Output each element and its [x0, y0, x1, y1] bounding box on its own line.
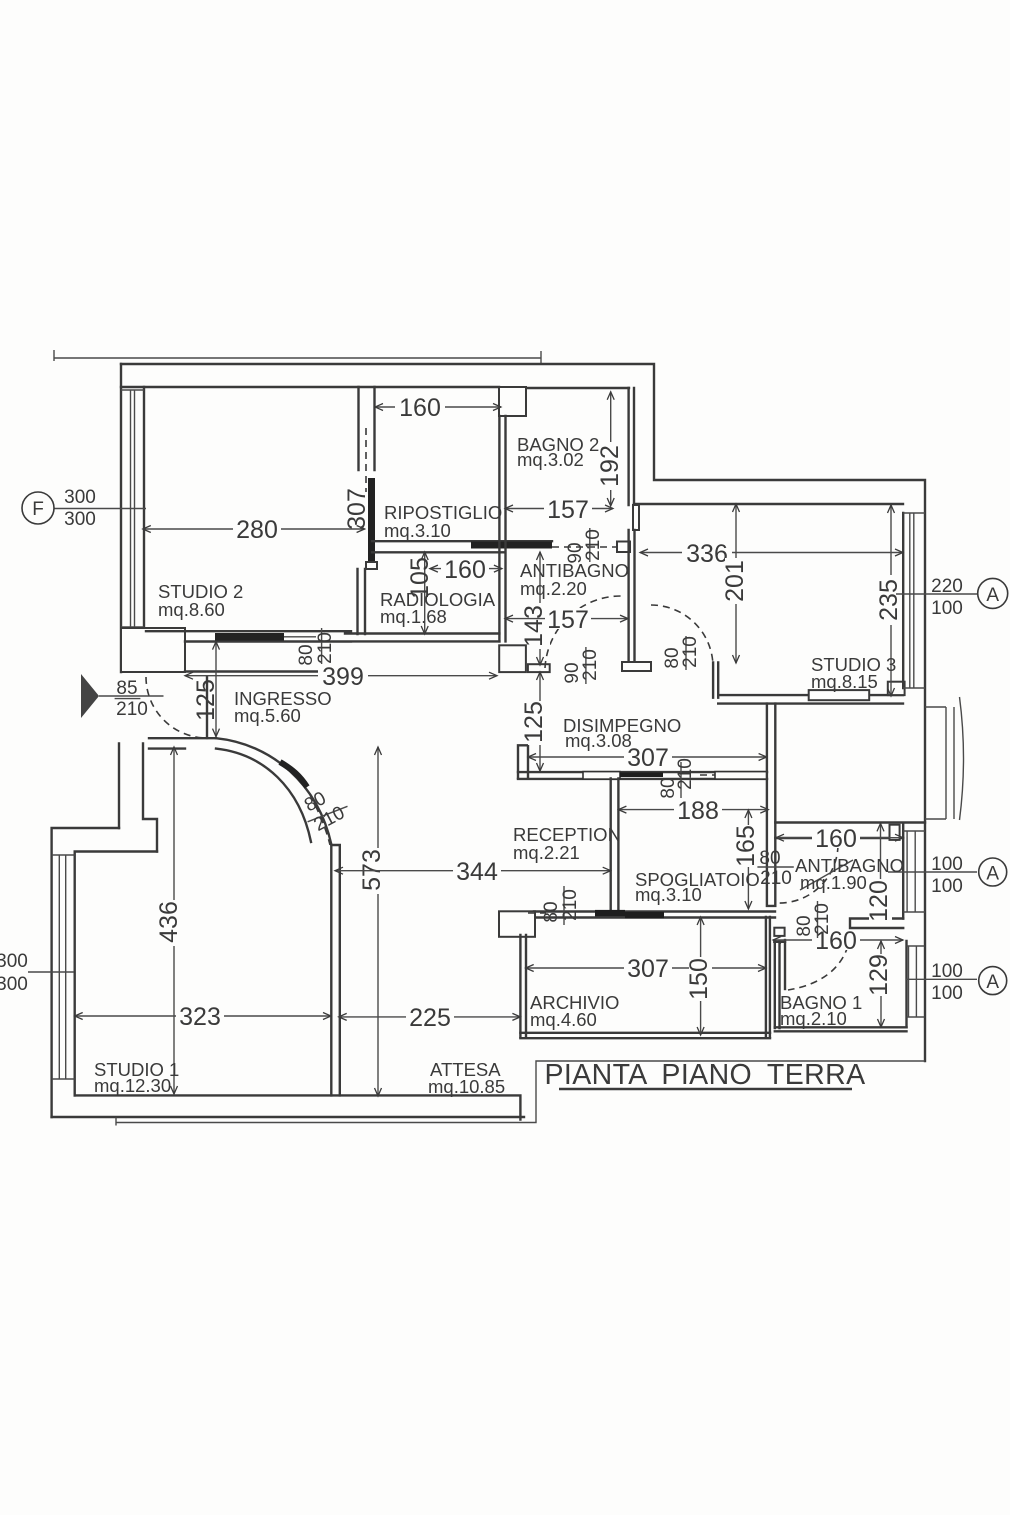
- dimension 120 ANTIBAGNO east: [865, 823, 893, 921]
- svg-text:235: 235: [875, 579, 903, 621]
- svg-text:mq.3.08: mq.3.08: [565, 730, 632, 751]
- svg-text:A: A: [986, 864, 999, 885]
- dimension 150 ARCHIVIO east: [685, 917, 713, 1035]
- jamb block BAGNO 1 door: [774, 928, 785, 942]
- pier between RIPOSTIGLIO and BAGNO 2: [499, 387, 526, 416]
- room label RECEPTION: [513, 824, 621, 863]
- svg-text:125: 125: [192, 679, 220, 721]
- dimension 165 SPOGLIATOIO east: [732, 810, 760, 909]
- dimension 201 corridor: [721, 504, 749, 663]
- wall BAGNO 2 east: [622, 388, 651, 671]
- svg-text:210: 210: [583, 529, 604, 561]
- svg-text:mq.1.90: mq.1.90: [800, 872, 867, 893]
- room label STUDIO 1: [94, 1059, 179, 1096]
- wall ARCHIVIO south: [520, 1033, 770, 1038]
- room label STUDIO 3: [811, 654, 896, 692]
- dimension 192 BAGNO 2: [596, 392, 624, 506]
- wall between RIPOSTIGLIO/RADIOLOGIA and BAGNO 2/ANTIBAGNO: [499, 416, 505, 641]
- dimension 307 ARCHIVIO: [526, 955, 766, 983]
- reference line top: [54, 350, 541, 363]
- dimension 225 ATTESA: [339, 1004, 521, 1032]
- wall STUDIO 1 / ATTESA south: [52, 1095, 524, 1119]
- room label INGRESSO: [234, 688, 332, 726]
- wall STUDIO 3 south: [718, 682, 904, 704]
- svg-text:100: 100: [931, 983, 963, 1004]
- dimension 336 corridor STUDIO 3: [640, 540, 903, 568]
- dimension 105 RADIOLOGIA: [406, 552, 434, 634]
- label 90/210 sliding door rotated: [565, 528, 604, 564]
- svg-text:mq.12.30: mq.12.30: [94, 1075, 171, 1096]
- svg-text:300: 300: [64, 487, 96, 508]
- label 80/210 DISIMPEGNO sliding door rotated: [658, 758, 696, 798]
- label 90/210 ANTIBAGNO door rotated: [562, 647, 601, 684]
- wall RECEPTION north-west corner stub: [518, 745, 528, 778]
- wall DISIMPEGNO east / shaft west: [767, 704, 775, 906]
- svg-text:mq.8.15: mq.8.15: [811, 671, 878, 692]
- door ANTIBAGNO mq.2.20 90/210 swing: [545, 596, 621, 668]
- svg-text:160: 160: [815, 825, 857, 853]
- dimension 280 STUDIO 2: [143, 516, 365, 544]
- wall: top exterior outer edge and right step to outer corner: [121, 364, 925, 1061]
- wall block at SW corner of STUDIO 2: [121, 628, 185, 672]
- svg-text:201: 201: [721, 560, 749, 602]
- dimension 160 RADIOLOGIA: [430, 556, 502, 584]
- wall: STUDIO 2 / corridor top-right inner line: [634, 503, 903, 505]
- wall INGRESSO south and curved wall: [149, 738, 332, 845]
- svg-text:mq.3.10: mq.3.10: [384, 520, 451, 541]
- dimension 399 INGRESSO: [185, 663, 497, 691]
- door INGRESSO 85/210 swing: [146, 677, 207, 738]
- svg-text:210: 210: [315, 632, 336, 664]
- svg-text:307: 307: [343, 488, 371, 530]
- svg-text:100: 100: [931, 598, 963, 619]
- wall DISIMPEGNO south with sliding doors: [518, 772, 767, 780]
- svg-text:PIANTA PIANO TERRA: PIANTA PIANO TERRA: [544, 1059, 865, 1091]
- svg-text:210: 210: [675, 758, 696, 790]
- label 80/210 ANTIBAGNO door: [757, 848, 793, 889]
- dimension 188 SPOGLIATOIO: [618, 797, 768, 825]
- wall ARCHIVIO west: [520, 935, 526, 1037]
- wall: top exterior inner edge: [121, 387, 629, 388]
- dimension 344 RECEPTION: [335, 858, 611, 886]
- svg-text:85: 85: [116, 678, 137, 699]
- dimension 323 STUDIO 1: [75, 1003, 331, 1031]
- svg-text:210: 210: [760, 868, 792, 889]
- svg-text:210: 210: [580, 649, 601, 681]
- dimension 436 STUDIO 1: [155, 747, 185, 1094]
- partition STUDIO 2 / RIPOSTIGLIO with sliding door: [358, 387, 378, 634]
- svg-text:210: 210: [560, 889, 581, 921]
- dimension 573: [358, 747, 389, 1096]
- window ANTIBAGNO east: [903, 825, 925, 919]
- wall ANTIBAGNO south: [850, 919, 903, 929]
- label 80/210 STUDIO 2 sliding door rotated: [296, 628, 336, 666]
- wall spine RECEPTION / SPOGLIATOIO: [611, 779, 619, 910]
- svg-text:129: 129: [865, 954, 893, 996]
- door STUDIO 3 80/210 swing: [651, 605, 713, 666]
- svg-text:160: 160: [444, 556, 486, 584]
- svg-text:188: 188: [677, 797, 719, 825]
- svg-text:157: 157: [547, 606, 589, 634]
- room label ANTIBAGNO mq.2.20: [520, 560, 629, 599]
- wall: INGRESSO north inner line: [185, 670, 351, 672]
- wall STUDIO 2 south / RADIOLOGIA south with sliding door bar: [146, 631, 499, 641]
- svg-text:100: 100: [931, 961, 963, 982]
- svg-text:mq.10.85: mq.10.85: [428, 1076, 505, 1097]
- window STUDIO 3 east: [903, 513, 925, 688]
- room label RIPOSTIGLIO: [384, 502, 502, 541]
- wall ARCHIVIO east: [766, 917, 770, 1037]
- svg-text:A: A: [986, 585, 999, 606]
- room label STUDIO 2: [158, 581, 243, 620]
- wall: STUDIO 1 west exterior with window: [52, 828, 157, 1117]
- reference line bottom with title frame: [116, 1061, 925, 1126]
- dimension 160 RIPOSTIGLIO top: [375, 394, 501, 422]
- svg-text:A: A: [986, 972, 999, 993]
- svg-text:300: 300: [0, 951, 28, 972]
- wall: west exterior of STUDIO 2: [121, 364, 144, 672]
- entrance arrow 85/210: [81, 674, 164, 720]
- dimension 307 DISIMPEGNO: [528, 744, 767, 772]
- pillar block NW of ARCHIVIO: [499, 911, 535, 937]
- svg-text:150: 150: [685, 958, 713, 1000]
- svg-text:323: 323: [179, 1003, 221, 1031]
- svg-text:307: 307: [627, 955, 669, 983]
- svg-text:220: 220: [931, 576, 963, 597]
- svg-text:F: F: [32, 499, 44, 520]
- svg-text:80: 80: [541, 901, 562, 922]
- svg-text:80: 80: [296, 644, 317, 665]
- dimension 143/125 DISIMPEGNO west: [520, 672, 550, 771]
- svg-text:300: 300: [64, 509, 96, 530]
- dimension 129 BAGNO 1 east: [865, 941, 893, 1027]
- dimension 157 BAGNO 2 south: [505, 496, 613, 524]
- dimension 157 ANTIBAGNO: [505, 606, 628, 634]
- svg-text:143: 143: [520, 605, 548, 647]
- partition STUDIO 1 / ATTESA: [331, 845, 340, 1095]
- label 80/210 BAGNO 1 door rotated: [794, 901, 833, 938]
- svg-text:80: 80: [759, 848, 780, 869]
- svg-text:210: 210: [116, 699, 148, 720]
- room label DISIMPEGNO: [563, 715, 681, 751]
- room label ATTESA: [428, 1059, 505, 1097]
- window BAGNO 1 east: [907, 941, 925, 1027]
- svg-text:344: 344: [456, 858, 498, 886]
- section marker A 220/100: [896, 576, 1008, 619]
- dimension 235 STUDIO 3: [875, 505, 903, 696]
- svg-text:210: 210: [812, 903, 833, 935]
- svg-text:300: 300: [0, 974, 28, 995]
- wall RIPOSTIGLIO / RADIOLOGIA with sliding door bar: [372, 541, 630, 552]
- svg-text:307: 307: [627, 744, 669, 772]
- svg-text:157: 157: [547, 496, 589, 524]
- svg-text:mq.3.10: mq.3.10: [635, 884, 702, 905]
- svg-text:160: 160: [399, 394, 441, 422]
- wall SPOGLIATOIO south with sliding doors: [534, 910, 775, 918]
- svg-text:mq.5.60: mq.5.60: [234, 705, 301, 726]
- section marker F 300/300: [22, 487, 146, 530]
- label 80/210 STUDIO 3 door rotated: [662, 636, 701, 670]
- svg-text:210: 210: [680, 636, 701, 668]
- dimension 143 ANTIBAGNO west: [520, 552, 550, 665]
- wall BAGNO 1 west: [775, 942, 780, 1028]
- room label ARCHIVIO: [530, 992, 619, 1030]
- room label BAGNO 1: [780, 992, 862, 1029]
- room label BAGNO 2: [517, 434, 599, 470]
- section marker A 100/100 bottom: [906, 961, 1007, 1004]
- wall step at STUDIO 3 door: [713, 662, 718, 697]
- room label RADIOLOGIA: [380, 589, 496, 627]
- svg-text:436: 436: [155, 901, 183, 943]
- svg-text:100: 100: [931, 876, 963, 897]
- wall: west wall below entrance door: [119, 744, 157, 852]
- label 80/210 curved door rotated: [301, 788, 348, 836]
- title PIANTA PIANO TERRA: [544, 1059, 865, 1091]
- svg-text:mq.1.68: mq.1.68: [380, 606, 447, 627]
- svg-text:mq.2.10: mq.2.10: [780, 1008, 847, 1029]
- section marker A 100/100 middle: [888, 854, 1007, 897]
- wall shaft south / ANTIBAGNO north: [775, 823, 925, 840]
- balcony east of shaft: [925, 697, 964, 820]
- svg-text:100: 100: [931, 854, 963, 875]
- svg-text:mq.3.02: mq.3.02: [517, 449, 584, 470]
- door BAGNO 1 80/210 swing and leaf: [785, 940, 848, 990]
- door ANTIBAGNO mq.1.90 80/210 swing and leaf: [776, 845, 853, 903]
- dimension 125 INGRESSO: [192, 642, 220, 737]
- svg-text:399: 399: [322, 663, 364, 691]
- svg-text:mq.8.60: mq.8.60: [158, 599, 225, 620]
- svg-text:mq.4.60: mq.4.60: [530, 1009, 597, 1030]
- svg-text:225: 225: [409, 1004, 451, 1032]
- wall blocks SW of DISIMPEGNO: [499, 645, 550, 672]
- section marker 300/300 bottom left: [0, 951, 74, 995]
- svg-text:mq.2.20: mq.2.20: [520, 578, 587, 599]
- svg-text:125: 125: [520, 701, 548, 743]
- svg-text:mq.2.21: mq.2.21: [513, 842, 580, 863]
- svg-text:120: 120: [865, 880, 893, 922]
- dimension 160 BAGNO 1 north: [773, 927, 903, 955]
- dimension 160 ANTIBAGNO north: [776, 825, 903, 853]
- label 80/210 RECEPTION sliding door rotated: [528, 886, 581, 925]
- svg-text:192: 192: [596, 445, 624, 487]
- svg-text:165: 165: [732, 825, 760, 867]
- svg-text:280: 280: [236, 516, 278, 544]
- wall BAGNO 1 south: [775, 1027, 907, 1031]
- room label ANTIBAGNO mq.1.90: [795, 855, 904, 893]
- room label SPOGLIATOIO: [635, 869, 760, 905]
